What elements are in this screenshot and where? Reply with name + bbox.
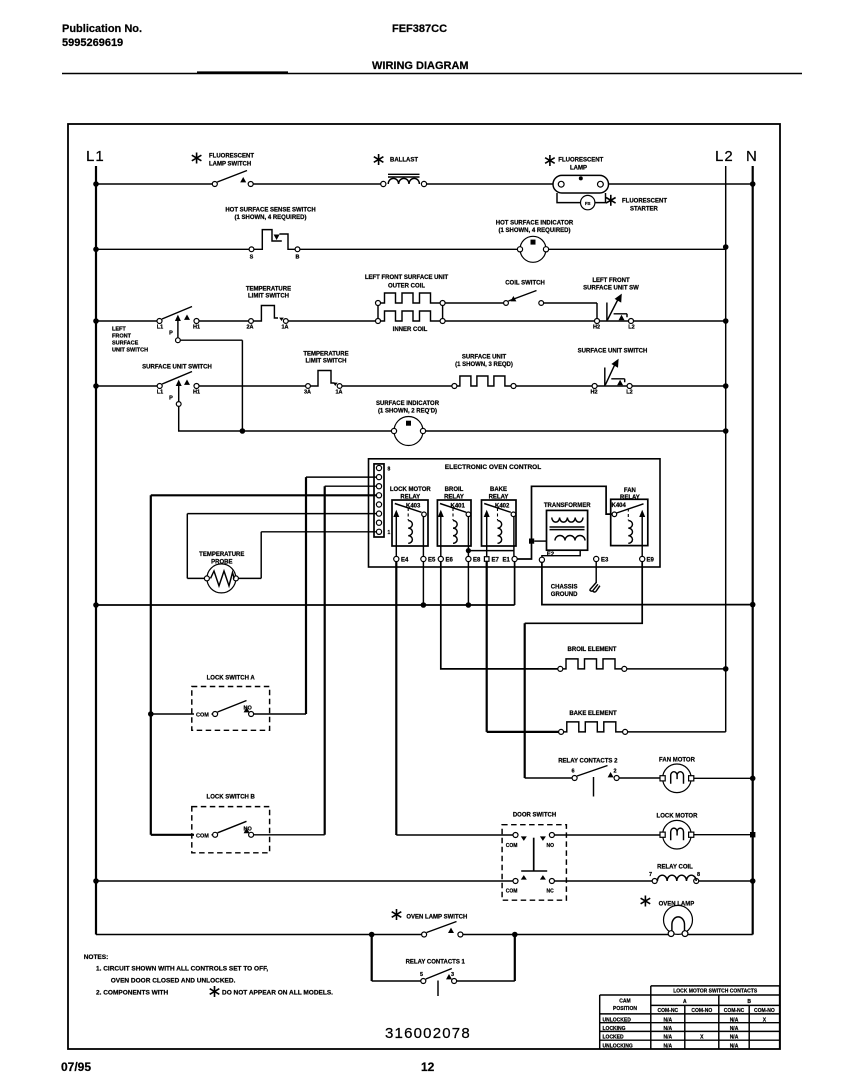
svg-text:INNER COIL: INNER COIL bbox=[393, 327, 428, 333]
svg-text:LEFT FRONT: LEFT FRONT bbox=[592, 278, 630, 284]
svg-text:RELAY CONTACTS 2: RELAY CONTACTS 2 bbox=[558, 759, 618, 765]
svg-text:LOCK MOTOR: LOCK MOTOR bbox=[390, 487, 432, 493]
svg-text:FEF387CC: FEF387CC bbox=[392, 23, 447, 35]
svg-text:TEMPERATURE: TEMPERATURE bbox=[246, 287, 291, 293]
svg-text:N/A: N/A bbox=[730, 1026, 739, 1032]
svg-text:COM-NC: COM-NC bbox=[658, 1008, 679, 1014]
svg-text:COM: COM bbox=[196, 713, 209, 719]
svg-text:STARTER: STARTER bbox=[630, 207, 659, 213]
svg-text:OVEN LAMP: OVEN LAMP bbox=[659, 902, 695, 908]
svg-text:FAN MOTOR: FAN MOTOR bbox=[659, 758, 696, 764]
svg-text:FRONT: FRONT bbox=[112, 334, 132, 340]
svg-text:L2: L2 bbox=[626, 390, 632, 396]
svg-text:H2: H2 bbox=[590, 390, 597, 396]
svg-text:LOCK SWITCH A: LOCK SWITCH A bbox=[207, 676, 256, 682]
svg-text:(1 SHOWN, 3 REQD): (1 SHOWN, 3 REQD) bbox=[455, 362, 513, 368]
svg-text:2. COMPONENTS WITH: 2. COMPONENTS WITH bbox=[96, 990, 169, 997]
svg-text:P: P bbox=[169, 331, 173, 337]
svg-text:OVEN DOOR CLOSED AND UNLOCKED.: OVEN DOOR CLOSED AND UNLOCKED. bbox=[111, 978, 236, 985]
svg-text:COM-NO: COM-NO bbox=[691, 1008, 712, 1014]
svg-text:N: N bbox=[746, 148, 758, 165]
svg-text:7: 7 bbox=[649, 872, 652, 878]
svg-text:N/A: N/A bbox=[730, 1017, 739, 1023]
svg-text:LAMP SWITCH: LAMP SWITCH bbox=[209, 162, 251, 168]
svg-text:RELAY COIL: RELAY COIL bbox=[657, 865, 693, 871]
svg-text:COM: COM bbox=[506, 843, 518, 849]
svg-text:WIRING DIAGRAM: WIRING DIAGRAM bbox=[372, 60, 469, 72]
svg-text:FAN: FAN bbox=[624, 488, 636, 494]
svg-text:(1 SHOWN, 2 REQ'D): (1 SHOWN, 2 REQ'D) bbox=[378, 409, 437, 415]
svg-text:HOT SURFACE INDICATOR: HOT SURFACE INDICATOR bbox=[496, 221, 574, 227]
svg-text:E5: E5 bbox=[428, 558, 436, 564]
svg-text:L1: L1 bbox=[157, 325, 163, 331]
svg-text:E8: E8 bbox=[473, 558, 481, 564]
svg-text:316002078: 316002078 bbox=[385, 1025, 471, 1042]
svg-text:BAKE ELEMENT: BAKE ELEMENT bbox=[569, 711, 617, 717]
svg-text:P: P bbox=[169, 396, 173, 402]
svg-text:UNLOCKING: UNLOCKING bbox=[603, 1043, 633, 1049]
svg-text:K404: K404 bbox=[612, 503, 627, 509]
svg-text:LOCK SWITCH B: LOCK SWITCH B bbox=[207, 795, 256, 801]
svg-text:SURFACE UNIT SW: SURFACE UNIT SW bbox=[583, 286, 639, 292]
svg-text:RELAY: RELAY bbox=[444, 494, 464, 500]
svg-text:NC: NC bbox=[547, 889, 555, 895]
svg-text:NO: NO bbox=[547, 843, 555, 849]
svg-text:8: 8 bbox=[388, 467, 391, 473]
svg-text:5995269619: 5995269619 bbox=[62, 37, 123, 49]
svg-text:ELECTRONIC OVEN CONTROL: ELECTRONIC OVEN CONTROL bbox=[445, 464, 541, 471]
svg-text:BROIL: BROIL bbox=[445, 487, 464, 493]
svg-text:UNIT SWITCH: UNIT SWITCH bbox=[112, 348, 148, 354]
svg-text:LIMIT SWITCH: LIMIT SWITCH bbox=[248, 294, 289, 300]
svg-text:POSITION: POSITION bbox=[613, 1006, 637, 1012]
svg-text:2A: 2A bbox=[246, 325, 253, 331]
svg-text:SURFACE UNIT SWITCH: SURFACE UNIT SWITCH bbox=[142, 365, 212, 371]
svg-text:CHASSIS: CHASSIS bbox=[551, 585, 578, 591]
svg-text:FLUORESCENT: FLUORESCENT bbox=[558, 158, 603, 164]
svg-text:N/A: N/A bbox=[730, 1035, 739, 1041]
svg-text:E3: E3 bbox=[601, 558, 609, 564]
svg-text:TEMPERATURE: TEMPERATURE bbox=[199, 552, 244, 558]
svg-text:OUTER COIL: OUTER COIL bbox=[388, 284, 425, 290]
svg-text:COM-NO: COM-NO bbox=[754, 1008, 775, 1014]
svg-text:1: 1 bbox=[388, 530, 391, 536]
svg-text:E6: E6 bbox=[446, 558, 454, 564]
svg-text:RELAY: RELAY bbox=[400, 494, 420, 500]
svg-text:E7: E7 bbox=[492, 558, 500, 564]
svg-text:1A: 1A bbox=[281, 325, 288, 331]
svg-text:GROUND: GROUND bbox=[551, 592, 578, 598]
svg-text:E9: E9 bbox=[647, 558, 655, 564]
svg-text:2: 2 bbox=[613, 768, 616, 774]
svg-text:5: 5 bbox=[420, 972, 423, 978]
svg-text:N/A: N/A bbox=[730, 1043, 739, 1049]
svg-text:HOT SURFACE SENSE SWITCH: HOT SURFACE SENSE SWITCH bbox=[225, 208, 315, 214]
svg-text:(1 SHOWN, 4 REQUIRED): (1 SHOWN, 4 REQUIRED) bbox=[234, 215, 306, 221]
svg-text:BROIL ELEMENT: BROIL ELEMENT bbox=[568, 647, 617, 653]
svg-text:N/A: N/A bbox=[663, 1026, 672, 1032]
svg-text:DOOR SWITCH: DOOR SWITCH bbox=[513, 813, 556, 819]
svg-text:3: 3 bbox=[451, 972, 454, 978]
svg-text:H1: H1 bbox=[193, 325, 200, 331]
svg-text:LEFT FRONT SURFACE UNIT: LEFT FRONT SURFACE UNIT bbox=[365, 275, 449, 281]
svg-text:RELAY CONTACTS 1: RELAY CONTACTS 1 bbox=[406, 960, 466, 966]
svg-text:RELAY: RELAY bbox=[620, 495, 640, 501]
svg-text:SURFACE UNIT: SURFACE UNIT bbox=[462, 355, 507, 361]
svg-text:L1: L1 bbox=[86, 148, 105, 165]
svg-text:N/A: N/A bbox=[663, 1043, 672, 1049]
svg-text:NO: NO bbox=[244, 827, 253, 833]
svg-text:12: 12 bbox=[421, 1060, 435, 1074]
svg-text:A: A bbox=[683, 999, 687, 1005]
svg-text:OVEN LAMP SWITCH: OVEN LAMP SWITCH bbox=[406, 915, 467, 921]
svg-text:COM: COM bbox=[506, 889, 518, 895]
svg-text:6: 6 bbox=[571, 768, 574, 774]
svg-text:N/A: N/A bbox=[663, 1017, 672, 1023]
svg-text:FLUORESCENT: FLUORESCENT bbox=[622, 199, 667, 205]
svg-text:LOCKED: LOCKED bbox=[603, 1035, 625, 1041]
svg-text:CAM: CAM bbox=[619, 998, 630, 1004]
svg-text:FLUORESCENT: FLUORESCENT bbox=[209, 154, 254, 160]
svg-text:SURFACE UNIT SWITCH: SURFACE UNIT SWITCH bbox=[578, 349, 648, 355]
svg-text:8: 8 bbox=[697, 872, 700, 878]
svg-text:LOCK MOTOR SWITCH CONTACTS: LOCK MOTOR SWITCH CONTACTS bbox=[673, 989, 758, 995]
svg-text:COM: COM bbox=[196, 834, 209, 840]
svg-text:N/A: N/A bbox=[663, 1035, 672, 1041]
svg-text:Publication No.: Publication No. bbox=[62, 23, 142, 35]
svg-text:LAMP: LAMP bbox=[570, 166, 587, 172]
svg-text:NO: NO bbox=[244, 706, 253, 712]
svg-text:B: B bbox=[747, 999, 751, 1005]
svg-text:H2: H2 bbox=[593, 325, 600, 331]
svg-text:L2: L2 bbox=[715, 148, 734, 165]
svg-text:UNLOCKED: UNLOCKED bbox=[603, 1017, 632, 1023]
svg-text:LOCK MOTOR: LOCK MOTOR bbox=[657, 814, 699, 820]
svg-text:B: B bbox=[296, 255, 300, 261]
svg-text:L1: L1 bbox=[157, 390, 163, 396]
svg-text:FS: FS bbox=[585, 201, 591, 206]
svg-text:(1 SHOWN, 4 REQUIRED): (1 SHOWN, 4 REQUIRED) bbox=[498, 228, 570, 234]
svg-text:H1: H1 bbox=[193, 390, 200, 396]
svg-text:RELAY: RELAY bbox=[489, 494, 509, 500]
svg-text:BALLAST: BALLAST bbox=[390, 158, 418, 164]
svg-text:DO NOT APPEAR ON ALL MODELS.: DO NOT APPEAR ON ALL MODELS. bbox=[222, 990, 333, 997]
svg-text:E4: E4 bbox=[401, 558, 409, 564]
svg-text:1. CIRCUIT SHOWN WITH ALL CONT: 1. CIRCUIT SHOWN WITH ALL CONTROLS SET T… bbox=[96, 966, 268, 973]
svg-text:07/95: 07/95 bbox=[61, 1060, 91, 1074]
svg-text:COM-NC: COM-NC bbox=[724, 1008, 745, 1014]
svg-text:TEMPERATURE: TEMPERATURE bbox=[303, 352, 348, 358]
svg-text:LOCKING: LOCKING bbox=[603, 1026, 626, 1032]
svg-text:3A: 3A bbox=[304, 390, 311, 396]
svg-text:PROBE: PROBE bbox=[211, 560, 232, 566]
svg-text:E2: E2 bbox=[547, 552, 555, 558]
svg-text:NOTES:: NOTES: bbox=[84, 954, 109, 961]
svg-text:LIMIT SWITCH: LIMIT SWITCH bbox=[306, 359, 347, 365]
svg-text:S: S bbox=[250, 255, 254, 261]
svg-text:TRANSFORMER: TRANSFORMER bbox=[544, 503, 591, 509]
svg-text:E1: E1 bbox=[503, 558, 511, 564]
svg-text:BAKE: BAKE bbox=[490, 487, 507, 493]
svg-text:1A: 1A bbox=[335, 390, 342, 396]
svg-text:LEFT: LEFT bbox=[112, 327, 126, 333]
svg-text:SURFACE INDICATOR: SURFACE INDICATOR bbox=[376, 401, 440, 407]
svg-text:SURFACE: SURFACE bbox=[112, 341, 139, 347]
svg-text:COIL SWITCH: COIL SWITCH bbox=[505, 281, 545, 287]
svg-text:L2: L2 bbox=[628, 325, 634, 331]
